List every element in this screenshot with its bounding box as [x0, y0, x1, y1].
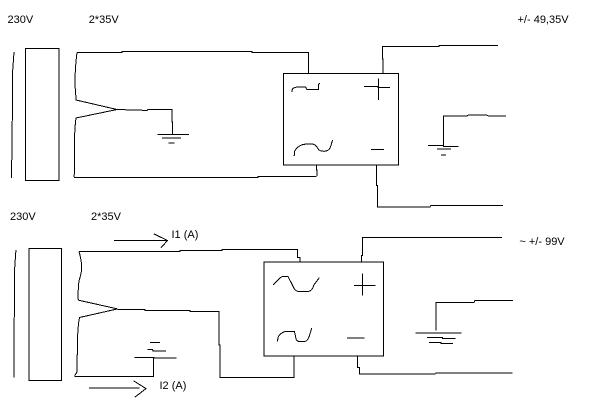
arrow I1 shaft — [114, 240, 168, 242]
wire secondary-bottom to center ground — [75, 358, 154, 377]
bridge rectifier B1 body — [284, 74, 399, 166]
arrow I2 shaft — [89, 387, 139, 389]
wire center tap to bridge B2 AC2 — [118, 309, 294, 377]
wire center tap to ground — [117, 109, 173, 134]
ground G4 (bottom circuit output) line 1 — [416, 332, 462, 334]
ground G2 line 3 — [441, 154, 446, 156]
ground G3 line 3 — [150, 341, 160, 343]
ground G1 line 2 — [162, 137, 181, 139]
bridge rectifier B2 body — [264, 262, 384, 356]
transformer T1 primary winding curve — [11, 52, 14, 178]
wire bridge B1 plus output — [382, 45, 498, 73]
transformer T1 core rectangle — [26, 49, 60, 181]
bridge B1 AC symbol top (~) — [292, 83, 320, 92]
wire output ground stub (bottom circuit) — [436, 301, 513, 331]
label 2*35V (bottom transformer secondary voltage) — [91, 212, 121, 223]
ground G4 line 2 — [427, 338, 456, 339]
ground G1 line 3 — [169, 142, 175, 144]
bridge B1 minus sign — [371, 149, 384, 151]
bridge B2 AC symbol top (~) — [273, 276, 319, 291]
transformer T2 secondary winding bottom curve — [75, 309, 118, 376]
ground G2 line 2 — [437, 148, 451, 150]
transformer T2 core rectangle — [29, 248, 61, 380]
wire secondary-bottom to bridge AC2 — [74, 177, 316, 178]
arrow I2 head — [134, 381, 146, 397]
wire secondary-top to bridge AC1 — [77, 52, 309, 74]
transformer T1 secondary winding top curve — [75, 53, 117, 110]
bridge B2 AC symbol bottom (~) — [277, 328, 311, 342]
label 2*35V (top transformer secondary voltage) — [89, 15, 119, 26]
transformer T2 secondary winding top curve — [78, 252, 118, 309]
wire secondary-top to bridge B2 AC1 — [79, 250, 300, 262]
label ~ +/- 99V (bottom circuit output voltage) — [519, 237, 564, 248]
wire bridge B1 minus output — [376, 165, 503, 207]
arrow I1 head — [154, 234, 168, 248]
ground G1 (center tap) line 1 — [158, 134, 190, 136]
bridge B1 AC2 pin — [315, 165, 318, 176]
label 230V (bottom transformer primary voltage) — [10, 212, 36, 223]
bridge B1 plus sign — [364, 78, 390, 100]
ground G3 line 2 — [147, 349, 166, 351]
transformer T1 secondary winding bottom curve — [74, 110, 117, 177]
bridge B1 AC symbol bottom (~) — [294, 140, 333, 156]
label I2 (A) current arrow bottom — [160, 381, 187, 392]
wire bridge B2 plus output — [361, 237, 502, 261]
wire output ground stub (top circuit) — [443, 115, 506, 145]
wire bridge B2 minus output — [357, 356, 512, 374]
label I1 (A) current arrow top — [172, 230, 199, 241]
ground G3 (center, inverted) line 1 — [135, 356, 177, 359]
bridge B2 minus sign — [347, 337, 365, 339]
label 230V (top transformer primary voltage) — [8, 15, 34, 26]
ground G2 (top circuit output) line 1 — [428, 145, 458, 146]
ground G4 line 3 — [429, 342, 453, 343]
bridge B2 plus sign — [354, 273, 376, 295]
transformer T2 primary winding curve — [14, 250, 16, 378]
label +/- 49,35V (top circuit output voltage) — [518, 15, 569, 26]
